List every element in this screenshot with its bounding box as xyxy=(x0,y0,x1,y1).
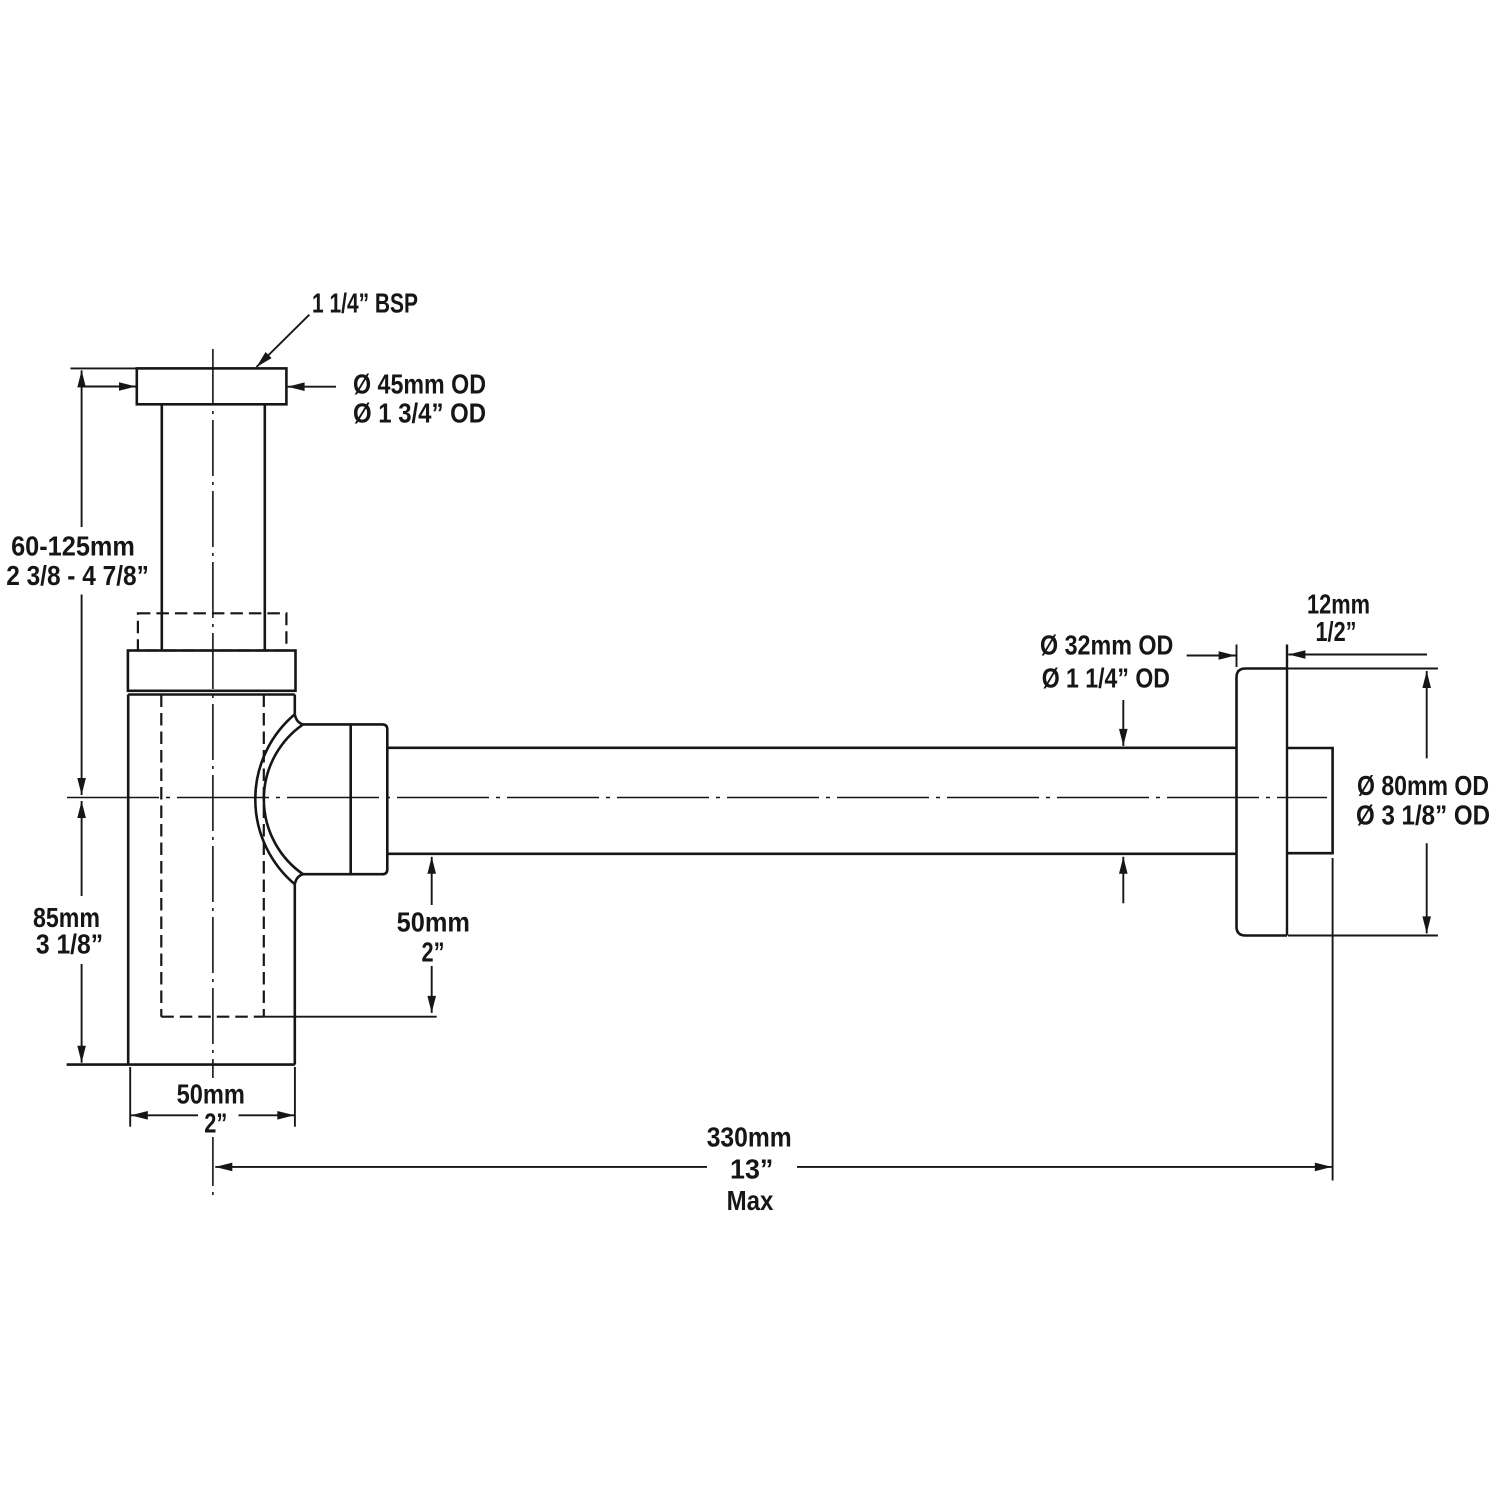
svg-text:50mm: 50mm xyxy=(397,907,470,938)
inlet pipe wall right xyxy=(263,404,266,650)
svg-text:Max: Max xyxy=(727,1185,774,1216)
dim 50mm drop lower segment xyxy=(431,966,433,1013)
inlet flange xyxy=(137,368,287,404)
dim 12mm extension stub xyxy=(1236,645,1238,668)
wall flange rear edge xyxy=(1286,645,1288,936)
outlet union sphere arc xyxy=(255,714,303,884)
svg-text:2 3/8 - 4 7/8”: 2 3/8 - 4 7/8” xyxy=(6,560,149,591)
rear pipe stub xyxy=(1287,748,1333,853)
dim dia32 arrow up xyxy=(1122,857,1124,904)
text halo over centerline (50mm) xyxy=(172,1078,250,1108)
inlet pipe wall left xyxy=(161,404,164,650)
dim 50mm drop extension xyxy=(264,1016,437,1018)
dim 330mm line left segment xyxy=(215,1166,707,1168)
dim dia32 arrow down xyxy=(1122,700,1124,746)
dim 12mm arrow left part xyxy=(1187,655,1236,657)
svg-text:2”: 2” xyxy=(204,1108,227,1139)
svg-text:12mm: 12mm xyxy=(1307,589,1370,620)
dim 50mm width line right xyxy=(239,1114,295,1116)
dim 50mm width extension left xyxy=(129,1067,131,1127)
dim 50mm drop upper segment xyxy=(431,857,433,905)
dim 12mm arrow right part xyxy=(1288,654,1427,656)
BSP leader arrow xyxy=(257,315,310,367)
text halo over centerline (2in) xyxy=(198,1106,234,1137)
dim dia80 line lower segment xyxy=(1426,843,1428,933)
svg-text:Ø 3 1/8” OD: Ø 3 1/8” OD xyxy=(1356,800,1490,831)
dim dia80 extension top xyxy=(1288,668,1438,670)
svg-text:13”: 13” xyxy=(730,1153,773,1184)
dim 60-125mm line upper segment xyxy=(81,370,83,527)
dim dia80 line upper segment xyxy=(1426,671,1428,758)
svg-text:60-125mm: 60-125mm xyxy=(11,531,135,562)
svg-text:Ø 1 1/4” OD: Ø 1 1/4” OD xyxy=(1042,663,1170,694)
svg-text:3 1/8”: 3 1/8” xyxy=(36,929,103,960)
dim 85mm line lower segment xyxy=(81,964,83,1063)
svg-text:Ø 80mm OD: Ø 80mm OD xyxy=(1357,770,1489,801)
vertical centerline xyxy=(212,349,214,1198)
hidden tube inside body xyxy=(161,695,263,1017)
outlet pipe wall bottom xyxy=(387,852,1236,855)
svg-text:50mm: 50mm xyxy=(177,1078,245,1109)
svg-text:2”: 2” xyxy=(422,937,445,968)
dim dia45 arrow left xyxy=(82,386,136,388)
dim dia45 arrow right xyxy=(288,386,336,388)
svg-text:1 1/4” BSP: 1 1/4” BSP xyxy=(312,288,418,319)
dim 330mm line right segment xyxy=(797,1166,1332,1168)
horizontal centerline xyxy=(67,797,1327,799)
dim 50mm width extension right xyxy=(294,1067,296,1127)
svg-text:330mm: 330mm xyxy=(707,1122,792,1153)
wall flange plate xyxy=(1237,669,1288,936)
svg-text:Ø 32mm OD: Ø 32mm OD xyxy=(1040,630,1173,661)
svg-text:Ø 1 3/4” OD: Ø 1 3/4” OD xyxy=(353,398,486,429)
outlet union cup xyxy=(264,724,387,874)
dim 60-125mm extension line top xyxy=(71,367,137,369)
dim 50mm width line left xyxy=(131,1114,199,1116)
dim dia80 extension bottom xyxy=(1288,935,1438,937)
outlet pipe wall top xyxy=(387,746,1236,749)
dim 60-125mm line lower segment xyxy=(81,595,83,796)
compression nut xyxy=(128,651,296,691)
trap body xyxy=(67,695,295,1065)
slip adjustment dashed box xyxy=(138,613,287,650)
dim 330mm extension right xyxy=(1332,858,1334,1181)
svg-text:Ø 45mm OD: Ø 45mm OD xyxy=(353,369,486,400)
svg-text:1/2”: 1/2” xyxy=(1316,616,1357,647)
dim 85mm line upper segment xyxy=(81,801,83,896)
